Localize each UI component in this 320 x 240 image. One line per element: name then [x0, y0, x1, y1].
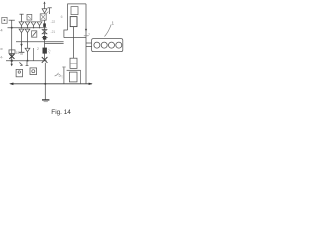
pump P1 on V1 — [9, 50, 15, 59]
wire H1 rail — [8, 27, 47, 29]
arrow A3 below H3 — [11, 61, 13, 67]
node J1 — [11, 27, 13, 29]
tick on right vertical — [84, 35, 89, 37]
wire H2 rail — [16, 41, 64, 43]
component box U9 (with circle) — [30, 68, 37, 75]
svg-text:6: 6 — [61, 15, 63, 19]
valve Y1 above rail — [19, 22, 24, 28]
svg-text:=|: =| — [60, 75, 63, 79]
svg-text:w: w — [0, 47, 3, 51]
wire V1 vertical — [11, 20, 13, 61]
upper unit outer box — [64, 4, 86, 38]
inner rect R3 — [70, 58, 77, 68]
tank T1 top bar over V1 — [9, 19, 15, 21]
svg-text:-21: -21 — [51, 30, 56, 34]
engine block (4 circles) — [92, 39, 123, 52]
leader to label 1 — [105, 25, 112, 37]
connector ticks to engine block — [86, 43, 92, 46]
wire stub x49.5 — [48, 8, 52, 14]
wire right main vertical — [85, 4, 87, 84]
valve box U2 — [27, 14, 32, 20]
node J3 — [27, 60, 29, 62]
tank T3 — [19, 52, 25, 54]
node J2 — [11, 60, 13, 62]
svg-text:1: 1 — [112, 20, 115, 25]
inner rect R1 — [71, 7, 78, 15]
tank T4 (bottom) — [42, 100, 49, 102]
arrow A4 small diagonal — [19, 62, 22, 65]
double arrow line (bottom) — [9, 83, 92, 86]
svg-text:-22: -22 — [51, 20, 56, 24]
wire H3 rail — [6, 60, 47, 62]
valve box U3 (dark cluster) — [40, 12, 48, 21]
valve stack U5 (dense vertical cluster x44.5) — [42, 20, 48, 61]
node dots on H1 — [21, 27, 40, 28]
svg-text:15: 15 — [16, 51, 20, 55]
valve Y6 below rail — [25, 29, 30, 42]
lower unit box — [62, 67, 80, 84]
X-valve U7 (x44.5, y56-64) — [42, 57, 48, 63]
valve Y3 above rail — [31, 22, 36, 28]
component box U8 (with circle) — [16, 69, 22, 76]
tank T2 stem (x21.5 above rail) — [20, 14, 24, 21]
svg-text:4: 4 — [0, 27, 3, 32]
wire stub x27 below H3 — [26, 61, 29, 66]
svg-text:2: 2 — [37, 47, 39, 51]
wire long vertical to tank — [44, 63, 46, 100]
valve Y2 above rail — [25, 22, 30, 28]
valve Y5 below rail — [19, 29, 24, 42]
arrow A2 on tank line x21.5 — [20, 42, 22, 53]
wire H2b parallel — [45, 43, 64, 45]
svg-text:7: 7 — [88, 33, 90, 37]
svg-text:Fig. 14: Fig. 14 — [51, 109, 71, 116]
solenoid box U6 (dark, x44.5) — [43, 48, 47, 54]
wire inner vertical — [72, 27, 74, 59]
wire x33.5 down — [33, 48, 35, 61]
valve F2 funnel x27.5 — [25, 42, 30, 61]
inner rect R4 — [69, 72, 77, 82]
svg-text:4-: 4- — [0, 56, 3, 60]
valve F0 funnel (top) — [42, 9, 47, 13]
node J4 (cross with arrow line) — [45, 83, 47, 85]
arrow A1 (top) — [43, 1, 45, 8]
check valve U4 — [32, 31, 37, 37]
inner rect R2 (pump) — [70, 17, 77, 27]
shelf line — [67, 69, 81, 71]
label box B1 (left, with dot) — [2, 17, 7, 23]
arrow A5 on right vertical — [85, 29, 87, 32]
label 5 with leader — [55, 73, 61, 78]
valve Y4 above rail — [37, 22, 42, 28]
